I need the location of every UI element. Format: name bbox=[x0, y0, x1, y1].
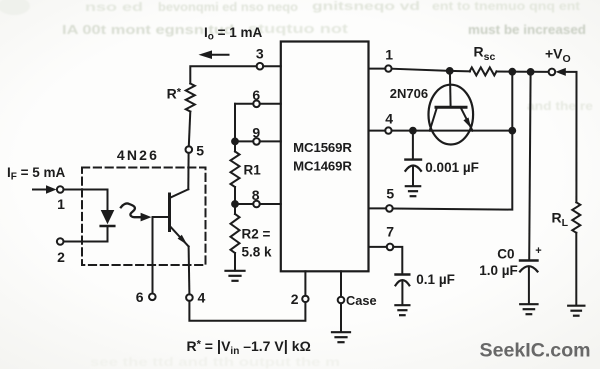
svg-text:Case: Case bbox=[346, 293, 377, 308]
svg-text:3: 3 bbox=[256, 46, 264, 62]
svg-text:2: 2 bbox=[291, 291, 299, 307]
svg-text:IF = 5 mA: IF = 5 mA bbox=[7, 165, 66, 183]
svg-text:RL: RL bbox=[552, 210, 569, 230]
svg-text:+VO: +VO bbox=[545, 46, 571, 66]
svg-text:C0: C0 bbox=[497, 247, 514, 262]
svg-text:1.0 µF: 1.0 µF bbox=[479, 263, 518, 278]
svg-text:SeekIC.com: SeekIC.com bbox=[480, 340, 591, 362]
svg-text:4N26: 4N26 bbox=[117, 147, 159, 163]
svg-text:must be increased: must be increased bbox=[468, 23, 586, 37]
svg-text:MC1469R: MC1469R bbox=[293, 159, 352, 174]
svg-text:5.8 k: 5.8 k bbox=[242, 245, 273, 260]
svg-text:5: 5 bbox=[196, 143, 204, 159]
svg-text:MC1569R: MC1569R bbox=[293, 140, 352, 155]
svg-text:5: 5 bbox=[386, 186, 394, 202]
svg-text:ent to tnemuo qnq ent: ent to tnemuo qnq ent bbox=[432, 0, 580, 13]
svg-text:6: 6 bbox=[252, 87, 260, 103]
svg-text:R*: R* bbox=[167, 86, 182, 102]
svg-text:9: 9 bbox=[252, 124, 260, 140]
svg-text:6: 6 bbox=[136, 289, 144, 305]
svg-text:1: 1 bbox=[57, 196, 65, 212]
svg-text:4: 4 bbox=[385, 111, 393, 127]
svg-text:stuqtuo not: stuqtuo not bbox=[248, 22, 349, 36]
svg-text:Rsc: Rsc bbox=[474, 44, 496, 64]
svg-text:nso ed: nso ed bbox=[85, 0, 143, 14]
svg-text:8: 8 bbox=[252, 187, 260, 203]
svg-text:R1: R1 bbox=[244, 163, 262, 178]
svg-text:1: 1 bbox=[385, 47, 393, 63]
svg-text:see the ttd and tth output the: see the ttd and tth output the m bbox=[90, 355, 340, 369]
svg-text:R2 =: R2 = bbox=[242, 227, 271, 242]
svg-text:gnitsneqo vd: gnitsneqo vd bbox=[312, 0, 420, 13]
svg-text:bevonqmi ed nso neqo: bevonqmi ed nso neqo bbox=[158, 0, 298, 14]
svg-text:2N706: 2N706 bbox=[390, 86, 428, 101]
svg-text:7: 7 bbox=[386, 224, 394, 240]
svg-text:0.1 µF: 0.1 µF bbox=[416, 272, 455, 287]
svg-text:4: 4 bbox=[198, 290, 206, 306]
svg-text:2: 2 bbox=[57, 249, 65, 265]
svg-text:0.001 µF: 0.001 µF bbox=[425, 160, 479, 175]
svg-text:+: + bbox=[535, 245, 541, 257]
svg-text:and the re: and the re bbox=[527, 99, 593, 113]
